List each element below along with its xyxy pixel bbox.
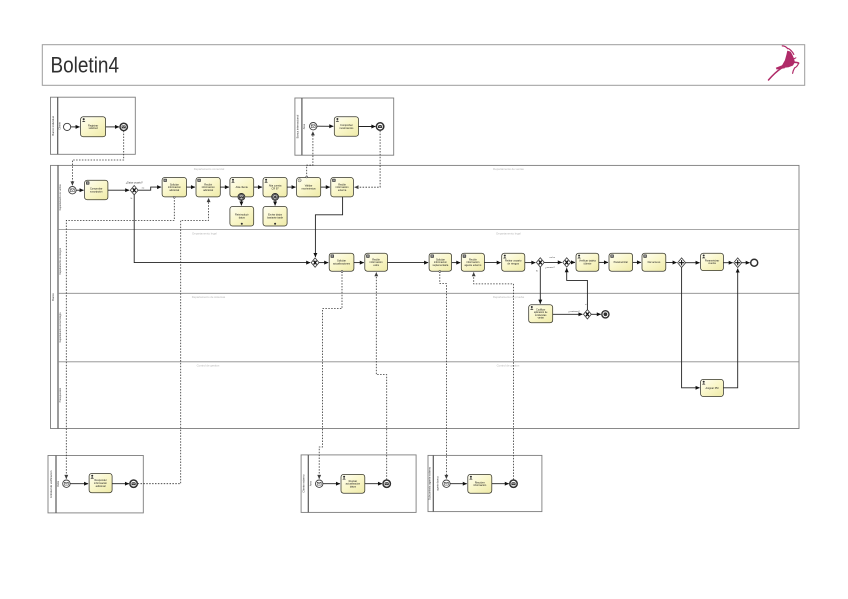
- boundary event (multiple): multiple en Alta cuenta: [272, 194, 279, 201]
- svg-text:Banco individual: Banco individual: [51, 116, 55, 136]
- pool: Banca internacional: [295, 98, 394, 155]
- start event (message): inicio agente: [443, 480, 450, 487]
- svg-text:Departamento legal: Departamento legal: [496, 231, 521, 235]
- sequence flow: Parametrizar->Dar acceso: [633, 261, 641, 263]
- sequence flow: G1->G2: [544, 261, 562, 263]
- svg-text:extra: extra: [373, 264, 379, 267]
- end event (message): fin verificacion: [130, 480, 137, 487]
- svg-text:no ha: no ha: [550, 257, 556, 259]
- svg-text:bastante tarde: bastante tarde: [267, 217, 284, 220]
- start event: inicio cliente: [64, 123, 71, 130]
- task: Registrar solicitud: [81, 117, 106, 137]
- svg-text:de riesgos: de riesgos: [507, 263, 519, 266]
- message flow: fin cliente -> inicio solicitud: [72, 131, 123, 186]
- svg-text:Perito: Perito: [57, 480, 60, 487]
- pool: Banco: [51, 165, 800, 428]
- svg-text:Departamento de prueba: Departamento de prueba: [493, 295, 525, 299]
- sequence flow: gateway->Solicitar info: [138, 187, 161, 190]
- svg-text:¿continuar?: ¿continuar?: [568, 310, 580, 313]
- sequence flow: Responder->fin: [112, 483, 129, 485]
- sequence flow: boundary->Enviar datos: [274, 200, 276, 205]
- message flow: fin cliente externo -> Recibir extra: [376, 272, 386, 479]
- sequence flow: inicio->Revisar: [323, 483, 340, 485]
- svg-text:datos: datos: [239, 217, 246, 220]
- sequence flow: Comprobar->fin: [359, 126, 376, 128]
- gateway (X): usuario valido?: [536, 258, 544, 267]
- svg-text:actualizaciones: actualizaciones: [333, 263, 351, 266]
- svg-text:Asignar PM: Asignar PM: [706, 387, 719, 390]
- end event (message): fin cliente externo: [383, 480, 390, 487]
- start event (message): inicio banca internacional: [310, 123, 317, 130]
- sequence flow: Recibir->Alta cliente: [220, 186, 229, 188]
- task: Revisar actualizacion datos: [341, 474, 365, 493]
- gateway (+): fork paralelo: [678, 258, 686, 268]
- svg-text:solicitud: solicitud: [89, 127, 99, 130]
- svg-text:Banca internacional: Banca internacional: [295, 114, 299, 138]
- svg-text:datos: datos: [350, 485, 357, 488]
- svg-text:agente externo: agente externo: [465, 264, 482, 267]
- sequence flow: G4 -> Asignar PM: [682, 268, 700, 388]
- sequence flow: Comprobar->gateway: [108, 189, 129, 191]
- svg-text:Departamento legal: Departamento legal: [192, 231, 217, 235]
- gateway (X): continuar?: [584, 310, 592, 319]
- sequence flow: Asignar PM -> G5: [723, 269, 737, 388]
- svg-text:Area: Area: [310, 480, 313, 486]
- svg-text:movimientos: movimientos: [339, 127, 354, 130]
- sequence flow: Alta cliente->Alta cuenta: [254, 186, 262, 188]
- sequence flow: G2->Verificar: [571, 261, 575, 263]
- svg-text:Departamento comercial: Departamento comercial: [194, 167, 225, 171]
- task: Comprobar movimientos: [334, 117, 358, 137]
- svg-text:Control de gestion: Control de gestion: [497, 363, 520, 367]
- svg-text:suscripcion: suscripcion: [90, 190, 103, 193]
- task: Recibir informacion agente externo: [461, 253, 484, 271]
- sequence flow: Codificar->G3: [553, 313, 583, 315]
- svg-text:Alta cliente: Alta cliente: [236, 186, 249, 189]
- sequence flow: G1 -> Codificar (lane3): [539, 267, 541, 304]
- svg-text:externa: externa: [338, 189, 347, 192]
- sequence flow: Recibir->Retirar: [484, 262, 500, 264]
- end event: fin proceso: [751, 259, 758, 266]
- task: Parametrizar cuenta: [701, 253, 724, 270]
- svg-text:suplementaria: suplementaria: [433, 264, 449, 267]
- svg-text:Boletin4: Boletin4: [51, 53, 120, 78]
- sequence flow: G4->Parametrizar cuenta: [686, 262, 700, 264]
- title bar: [42, 45, 804, 86]
- svg-text:adicional: adicional: [96, 485, 106, 488]
- task: Comprobar suscripcion: [85, 180, 108, 200]
- message flow: fin banca internacional -> Recibir externa: [355, 131, 381, 188]
- svg-text:CR 97: CR 97: [272, 187, 280, 190]
- sequence flow: Retirar->G1: [525, 262, 536, 264]
- task: Reintroducir datos: [230, 207, 254, 227]
- sequence flow: Solicitar->Recibir agente: [452, 262, 461, 264]
- terminate end event: terminar: [602, 311, 609, 318]
- task: Alta cliente: [230, 178, 254, 197]
- sequence flow: Resolver->fin: [492, 483, 509, 485]
- task: Recibir informacion adicional: [196, 178, 220, 197]
- task: Parametrizar: [609, 253, 633, 271]
- svg-text:Entidad de verificacion: Entidad de verificacion: [49, 470, 53, 498]
- task: Retirar usuario de riesgos: [502, 253, 525, 271]
- task: Enviar datos bastante tarde: [263, 207, 287, 227]
- pool: Entidad de verificacion: [48, 456, 143, 513]
- pool: Banco individual: [51, 97, 136, 154]
- task: Solicitar informacion suplementaria: [429, 253, 452, 271]
- sequence flow: boundary->Reintroducir: [240, 200, 242, 205]
- task: Recibir informacion extra: [365, 253, 388, 271]
- svg-text:Departamento de ventas: Departamento de ventas: [59, 184, 62, 211]
- sequence flow: Registrar->fin: [106, 126, 119, 128]
- svg-text:adicional: adicional: [169, 189, 179, 192]
- svg-text:Area: Area: [303, 123, 306, 129]
- task: Codificar aplicacion: [529, 305, 553, 323]
- pool: Subcontrata agente externo: [428, 455, 542, 511]
- svg-text:informacion: informacion: [473, 484, 487, 487]
- sequence flow: G0->Solicitar datos: [319, 262, 328, 264]
- sequence flow: Verificar->Parametrizar: [599, 261, 608, 263]
- message flow: Solicitar info adicional -> inicio verificacion: [66, 197, 174, 479]
- svg-text:varias: varias: [538, 316, 545, 319]
- svg-text:agente banca: agente banca: [436, 476, 439, 491]
- svg-text:Cliente: Cliente: [59, 121, 62, 129]
- svg-text:Dar acceso: Dar acceso: [648, 261, 661, 264]
- end event (message): fin banca internacional: [376, 123, 383, 130]
- task: Resolver informacion: [468, 474, 492, 493]
- svg-text:Presupuestos: Presupuestos: [59, 387, 62, 402]
- task: Validar movimientos: [297, 178, 321, 197]
- task: Responder informacion adicional: [89, 474, 112, 493]
- gateway (+): join paralelo: [734, 258, 742, 268]
- start event (message): inicio solicitud: [69, 187, 76, 194]
- sequence flow: Recibir->Solicitar cliente: [388, 262, 429, 264]
- svg-text:Departamento de sistemas: Departamento de sistemas: [192, 295, 226, 299]
- gateway (X): merge reintento: [563, 258, 571, 267]
- pool: Cliente externo: [301, 455, 416, 513]
- sequence flow: G3->terminar: [591, 313, 601, 315]
- task: Asignar PM: [701, 379, 724, 396]
- svg-text:Departamento de riesgos: Departamento de riesgos: [59, 247, 62, 275]
- end event (message): fin agente: [510, 480, 517, 487]
- lane divider 1: [58, 228, 799, 230]
- sequence flow: Validar->Recibir validacion: [321, 186, 330, 188]
- start event (message): inicio verificacion: [63, 480, 70, 487]
- sequence flow: Revisar->fin: [365, 483, 382, 485]
- message flow: fin verificacion -> Recibir info adicional: [138, 198, 209, 484]
- sequence flow: inicio->Comprobar datos: [76, 189, 84, 191]
- svg-text:Codificar: Codificar: [536, 309, 545, 312]
- sequence flow: Alta cuenta->Validar: [287, 186, 296, 188]
- sequence flow: gateway lane1 No -> G0: [134, 195, 310, 263]
- gateway (X): datos correctos?: [130, 186, 138, 195]
- task: Verificar tarjeta cliente: [576, 253, 599, 271]
- svg-text:Subcontrata agente externo: Subcontrata agente externo: [428, 466, 432, 500]
- svg-text:Control de gestion: Control de gestion: [197, 363, 220, 367]
- sequence flow: inicio->Comprobar: [317, 125, 333, 127]
- message flow: Solicitar actualizaciones -> inicio cliente externo: [319, 272, 342, 479]
- sequence flow: Solicitar->Recibir: [354, 262, 364, 264]
- svg-text:Banco: Banco: [51, 293, 55, 301]
- svg-text:Cliente externo: Cliente externo: [302, 474, 306, 493]
- task: Alta cuenta CR 97: [263, 178, 287, 197]
- svg-text:movimientos: movimientos: [302, 187, 317, 190]
- message flow: Solicitar suplementaria -> inicio agente: [440, 272, 447, 479]
- sequence flow: Dar acceso->G4: [666, 261, 677, 263]
- svg-text:/cliente: /cliente: [583, 263, 592, 266]
- sequence flow: Parametrizar cuenta->G5: [723, 262, 732, 264]
- svg-text:¿Datos usuario?: ¿Datos usuario?: [126, 181, 144, 184]
- sequence flow: G3 si -> G2: [567, 268, 588, 309]
- logo: leaping gazelle: [769, 46, 799, 80]
- sequence flow: Recibir externa -> G0: [315, 197, 342, 257]
- gateway (X): merge solicitudes: [311, 258, 319, 267]
- task: Solicitar informacion adicional: [162, 178, 186, 197]
- sequence flow: inicio->Registrar: [71, 126, 80, 128]
- start event (message): inicio cliente externo: [316, 480, 323, 487]
- message flow: Validar movimientos -> inicio banca internacional: [307, 132, 313, 178]
- sequence flow: G5->fin: [742, 262, 750, 264]
- sequence flow: inicio->Resolver: [450, 483, 467, 485]
- lane divider 2: [58, 292, 799, 294]
- svg-text:¿usuario?: ¿usuario?: [545, 266, 556, 269]
- svg-text:cuenta: cuenta: [708, 262, 716, 265]
- svg-text:Departamento de ventas: Departamento de ventas: [493, 167, 524, 171]
- lane divider 3: [58, 361, 799, 363]
- message flow: fin agente -> Recibir agente externo: [474, 272, 514, 479]
- svg-text:Departamento de tecnologia: Departamento de tecnologia: [59, 312, 62, 343]
- task: Solicitar actualizaciones: [329, 253, 354, 271]
- svg-text:adicional: adicional: [203, 189, 213, 192]
- end event (message): fin mensaje cliente: [120, 123, 127, 130]
- sequence flow: inicio->Responder: [70, 483, 88, 485]
- task: Recibir informacion externa: [331, 178, 354, 197]
- svg-text:Parametrizar: Parametrizar: [614, 261, 628, 264]
- sequence flow: Solicitar->Recibir: [187, 186, 196, 188]
- boundary event (message): mensaje en Alta cliente: [238, 194, 245, 201]
- task: Dar acceso: [642, 253, 666, 271]
